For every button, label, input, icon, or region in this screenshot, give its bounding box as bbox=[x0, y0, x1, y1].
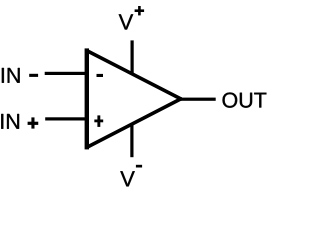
superscript minus of V- bbox=[136, 165, 142, 168]
label IN (non-inverting input) bbox=[1, 114, 19, 129]
wire IN+ (non-inverting input lead) bbox=[45, 117, 88, 120]
label IN (inverting input) bbox=[2, 68, 20, 83]
op-amp U1 triangle body bbox=[85, 48, 181, 149]
wire V+ (positive supply lead) bbox=[131, 40, 134, 74]
pin marker plus (non-inverting input, inside triangle) bbox=[94, 120, 103, 123]
pin marker minus (inverting input, inside triangle) bbox=[97, 74, 104, 77]
label V (positive supply) bbox=[119, 14, 133, 29]
wire V- (negative supply lead) bbox=[130, 122, 133, 157]
label OUT bbox=[223, 92, 267, 107]
minus sign after IN bbox=[29, 74, 38, 77]
label V (negative supply) bbox=[120, 171, 134, 186]
plus sign after IN bbox=[28, 122, 39, 125]
wire IN- (inverting input lead) bbox=[45, 72, 88, 75]
wire OUT (output lead) bbox=[178, 98, 216, 101]
superscript plus of V+ bbox=[135, 9, 145, 12]
